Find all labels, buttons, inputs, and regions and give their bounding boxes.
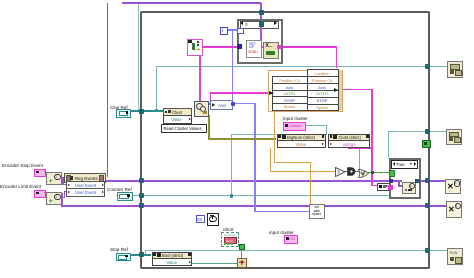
structure: True case selector (391, 160, 418, 169)
control: Stop Ref refnum (116, 253, 131, 262)
node: compound or icon (237, 258, 247, 268)
tunnel: magenta on case left (388, 185, 393, 190)
tunnel: loop left stop-ref (139, 252, 144, 257)
label: Abort (223, 227, 234, 232)
node: greater-than-0 gate triangle (335, 167, 346, 177)
constant: limit event pink (34, 190, 46, 198)
control: Abort boolean (221, 232, 239, 247)
node: read cluster gear VI icon (194, 101, 210, 118)
node: close ref icon bottom right (447, 248, 463, 266)
label: input cluster (bottom) (269, 230, 294, 235)
wire: blue horizontal to set-park box (254, 211, 309, 213)
node: cluster table right tan strip (337, 70, 342, 110)
node: Axis local variable (210, 100, 233, 110)
wire: magenta gear out to Axis local (207, 103, 212, 105)
node: seq icon1 set-up-send VI (246, 40, 262, 58)
wire: gate1-gate2 link (343, 171, 348, 172)
wire: olive refnum from gear VI down (208, 115, 210, 139)
structure: True case frame (389, 158, 421, 199)
wire: teal clus-ref to property node (129, 110, 164, 112)
wire: teal vertical x=388 (388, 131, 389, 158)
tunnel: loop right teal bottom (425, 248, 430, 253)
wire: green abort drop (241, 245, 242, 258)
wire: orange from DigNum value down (270, 148, 271, 172)
node: create user event 2 (46, 192, 62, 206)
label: Read Cluster Values (161, 124, 207, 133)
node: cluster table right column (307, 69, 339, 111)
wire: teal from input cluster constant (304, 125, 326, 126)
wire: pink to node1 (44, 171, 46, 172)
wire: violet2 user event wire y=205 (61, 205, 446, 207)
wire: violet node1 to reg row1 (60, 177, 64, 179)
tunnel: blue hollow on sequence left (237, 28, 244, 35)
node: seq icon2 X-go VI (263, 42, 279, 59)
tunnel: navy on case left (violet1) (389, 179, 394, 184)
wire: teal bottom long run to close icon (145, 250, 447, 251)
node: Clust (strict) property node (328, 133, 369, 147)
wire: teal branch to DigNum node top (231, 134, 276, 135)
node: cluster table outer box (268, 70, 343, 112)
tunnel: navy solid on sequence left (237, 44, 243, 49)
wire: magenta between seq icons (258, 46, 265, 48)
node: signal compare icon (377, 183, 390, 191)
constant: input cluster pink (bottom) (284, 235, 298, 244)
wire: orange drop to set-park box (310, 162, 311, 205)
wire: teal refnum vertical from top to Reg Events (107, 3, 109, 177)
wire: pink to node2 (44, 192, 46, 193)
label: Counter Ref (107, 187, 132, 192)
node: set park speed label box (309, 204, 325, 219)
wire: olive refnum to DigNum property node (208, 138, 277, 140)
node: wait ms constant 50 (196, 215, 205, 224)
wire: magenta table output to the right (341, 89, 373, 91)
node: DigNum (strict) property node (276, 133, 324, 147)
control: Clus Ref refnum (116, 109, 131, 118)
wire: violet inside case jog (393, 180, 402, 182)
wire: blue horizontal to x=254 (232, 103, 256, 105)
tunnel: green selector on case left (389, 170, 396, 177)
node: table right output arrow (334, 88, 338, 92)
wire: magenta from open VI down to gear VI (199, 54, 201, 102)
wire: bool value to compound node (190, 263, 237, 264)
node: create user event 1 (46, 172, 62, 186)
tunnel: loop right violet1 (425, 178, 430, 183)
wire: magenta long vertical to comparison icon (371, 89, 373, 186)
wire: teal cluster-ref long top run to close icon (156, 66, 447, 67)
wire: violet event wire drop into sequence (260, 3, 262, 22)
wire: orange speed wire vertical from table (274, 110, 275, 162)
node: junction dot clus-ref branch (155, 109, 159, 113)
wire: magenta into compare icon (371, 185, 377, 186)
wire: tan drop from Clust node to gate3 (359, 149, 360, 170)
structure: sequence selector arrows and 0 (240, 21, 243, 25)
node: junction dot violet1 at case exit (416, 179, 420, 183)
wire: teal corner down to Clust node top (326, 125, 327, 135)
wire: magenta open VI out to sequence (201, 46, 238, 48)
node: Clust value row (163, 115, 192, 124)
node: open VI icon (magenta bordered) (187, 39, 203, 56)
wire: orange to greater-than gate (270, 171, 336, 172)
node: wait ms clock icon (207, 213, 219, 226)
node: generate user event icon in case (402, 182, 416, 195)
tunnel: loop right teal top (425, 64, 430, 69)
node: junction dot gate3 out (371, 171, 374, 174)
tunnel: loop right green shift (422, 140, 431, 149)
wire: teal to close-counter icon upper run (388, 131, 447, 132)
label: input cluster (top) (283, 116, 308, 121)
wire: blue long vertical x=254 (254, 103, 256, 212)
node: black arrow into table (268, 91, 273, 95)
wire: violet2 vertical from user event node (61, 193, 63, 206)
label: Encoder Stop Event (2, 163, 43, 168)
wire: blue vertical branch x=232 (232, 29, 234, 103)
node: junction dot blue at Axis (231, 102, 235, 106)
wire: violet event wire top horizontal (122, 2, 261, 4)
node: iteration terminal i (220, 27, 229, 36)
constant: stop event pink (34, 169, 46, 177)
label: Stop Ref (110, 247, 128, 252)
node: unregister events icon (violet1) (445, 179, 461, 195)
node: gate2 and-not (347, 167, 356, 176)
structure: flat sequence frame (237, 19, 283, 64)
wire: magenta branch up (210, 92, 212, 103)
node: Clust property node (163, 108, 191, 123)
tunnel: dark on loop top border (259, 10, 265, 15)
tunnel: loop right violet2 (425, 203, 430, 208)
node: reg events row2 User Event (66, 188, 105, 197)
constant: input cluster pink (top) (283, 122, 306, 131)
wire: teal clus-ref branch up along loop border (138, 4, 139, 111)
wire: teal stop-ref to Bool node (128, 254, 152, 256)
structure: sequence selector bar (240, 21, 279, 29)
tunnel: loop left counter (139, 193, 144, 198)
wire: teal counter branch x=231 down (231, 134, 232, 196)
tunnel: dark on sequence header (violet wire) (259, 21, 264, 27)
node: green square above compound (239, 244, 245, 250)
wire: gate2-gate3 link (354, 171, 360, 172)
wire: teal cluster-ref branch up (156, 66, 157, 111)
node: table left input arrow (on top) (269, 91, 274, 95)
node: Bool (strict) property node (151, 251, 191, 265)
node: junction dot counter branch (230, 194, 234, 198)
node: gate3 or (358, 169, 369, 178)
wire: green gate output to case selector (368, 172, 389, 173)
wire: teal counter-ref long wire y=195.5 (131, 195, 389, 196)
control: Counter Ref refnum (117, 192, 133, 201)
tunnel: loop left violet2 (139, 203, 144, 208)
wire: magenta drop into cluster table (336, 46, 338, 68)
wire: violet node2 to reg row2 (60, 197, 65, 199)
node: cluster table left column (272, 76, 308, 111)
node: unregister events icon (violet2) (446, 201, 462, 218)
node: reg events row1 User Event (66, 181, 105, 190)
label: Encoder Limit Event (0, 184, 41, 189)
tunnel: loop left clus-ref (139, 109, 144, 114)
wire: teal stop-ref branch vertical (145, 250, 146, 255)
tunnel: dark on case right (violet out) (415, 179, 420, 183)
node: Register For Events header (64, 173, 106, 183)
tunnel: loop left violet1 (139, 178, 144, 183)
tunnel: loop right teal counter (425, 129, 430, 134)
wire: blue i-terminal to sequence (226, 29, 240, 31)
node: close ref icon right 2 (counter) (446, 129, 462, 145)
wire: violet1 event reg wire y=180 (104, 180, 445, 182)
label: Clus Ref (110, 105, 128, 110)
wire: magenta to table left input (210, 92, 269, 94)
wire: violet inside sequence down to icons (260, 26, 262, 45)
node: close ref icon right 1 (teal top) (447, 61, 463, 79)
structure: while loop border (140, 11, 430, 269)
wire: magenta valSgn under Clust node (348, 147, 372, 148)
wire: magenta seq exit to table (280, 46, 337, 48)
tunnel: magenta on sequence right (277, 45, 282, 50)
wire: orange horizontal y=162 (274, 162, 311, 163)
